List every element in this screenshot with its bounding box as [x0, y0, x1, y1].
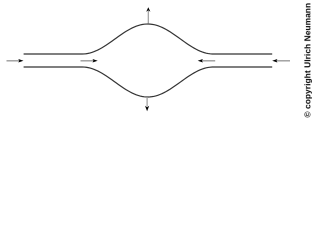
svg-text:© copyright Ulrich Neumann: © copyright Ulrich Neumann: [302, 3, 312, 118]
